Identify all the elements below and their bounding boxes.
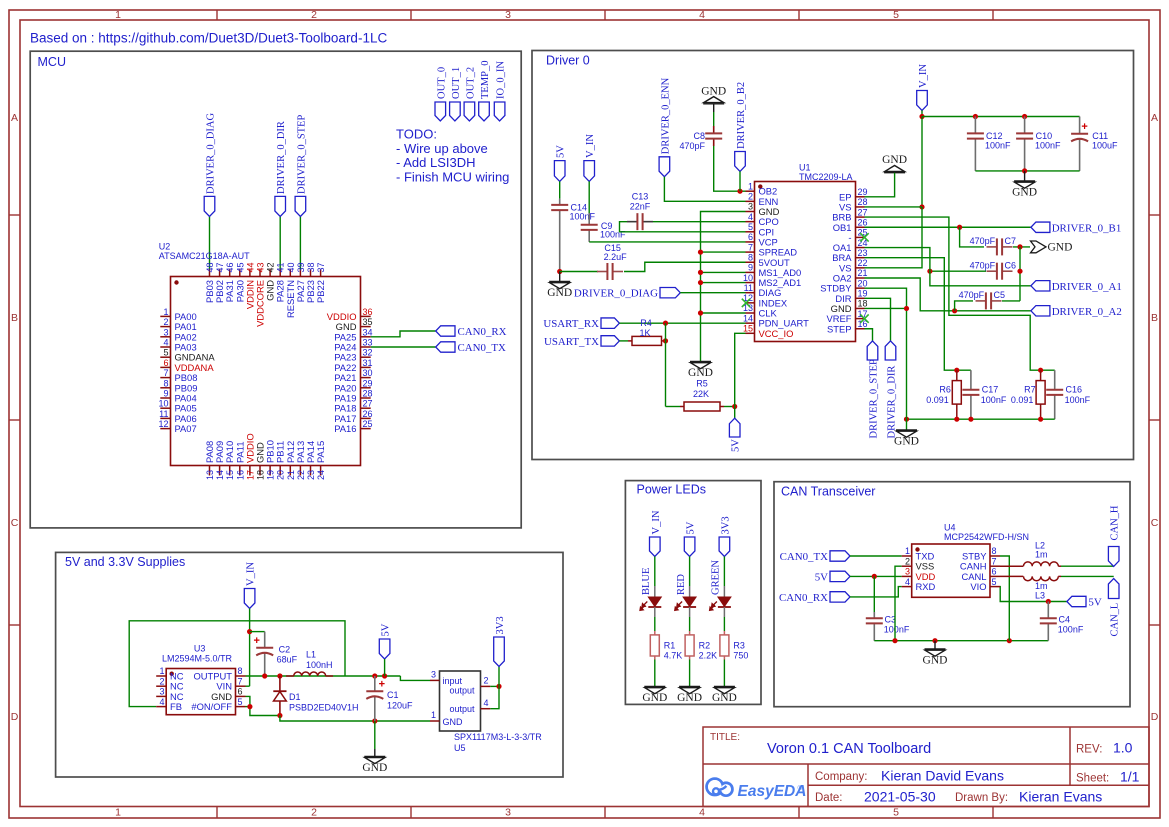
wire C5 to gnd vertical (1002, 300, 1020, 302)
net flag V_IN (driver left) (584, 161, 595, 182)
svg-text:27: 27 (363, 399, 373, 409)
svg-text:41: 41 (276, 262, 286, 272)
svg-text:11: 11 (744, 283, 753, 293)
capacitor C6 (987, 270, 997, 272)
wire V_IN to C9 (588, 181, 590, 213)
svg-text:48: 48 (205, 262, 215, 272)
svg-text:BLUE: BLUE (641, 568, 652, 595)
svg-text:2.2K: 2.2K (699, 651, 718, 661)
U5 pins (430, 670, 490, 722)
svg-text:VCC_IO: VCC_IO (759, 328, 794, 339)
wire STBY pin 8 to gnd rail (1000, 556, 1009, 641)
svg-text:29: 29 (858, 187, 868, 197)
svg-text:19: 19 (266, 470, 276, 480)
svg-text:1K: 1K (639, 328, 650, 338)
svg-text:38: 38 (306, 262, 316, 272)
svg-text:0.091: 0.091 (1011, 395, 1034, 405)
no-connect X pin 17 (860, 314, 868, 322)
svg-text:A: A (1151, 112, 1158, 124)
svg-text:Based on : https://github.com/: Based on : https://github.com/Duet3D/Due… (30, 31, 387, 46)
title block outline (703, 727, 1149, 807)
ground at C14/C15 (559, 272, 561, 282)
svg-text:Date:: Date: (815, 792, 843, 804)
ground below R3 (714, 686, 735, 688)
capacitor C14 (559, 199, 561, 205)
wire node to R5 (666, 406, 681, 408)
svg-text:5: 5 (163, 348, 168, 358)
wire C9 to VCP pin 6 (589, 241, 745, 243)
wire DRIVER_0_DIAG to U2 pin 48 (209, 217, 211, 270)
wire STDBY pin 20 to gnd (865, 288, 907, 430)
svg-text:22K: 22K (693, 389, 709, 399)
svg-text:DRIVER_0_ENN: DRIVER_0_ENN (660, 77, 671, 154)
svg-text:21: 21 (286, 470, 296, 480)
wire V_IN to C2 (250, 631, 265, 633)
wire CAN0_RX to RXD pin 4 (850, 587, 902, 597)
wire BRA pin 23 to R6/C17 (865, 258, 971, 371)
svg-text:+: + (1081, 121, 1087, 133)
net flag DRIVER_0_DIR (below U1) (885, 341, 896, 360)
wire 5V to LED RED (689, 557, 691, 587)
wire 3V3 to LED GREEN (723, 557, 725, 587)
svg-text:30: 30 (363, 368, 373, 378)
resistor R4 (628, 340, 632, 342)
svg-text:®: ® (798, 784, 803, 792)
svg-text:22nF: 22nF (630, 201, 651, 211)
wire OUTPUT rail (246, 675, 401, 677)
inductor L3 (1000, 575, 1023, 577)
svg-text:C10: C10 (1036, 131, 1053, 141)
svg-text:2: 2 (159, 676, 164, 686)
wire CPO pin 4 to C13 (653, 221, 746, 223)
svg-text:470pF: 470pF (970, 236, 996, 246)
svg-text:C11: C11 (1092, 131, 1108, 141)
svg-text:V_IN: V_IN (246, 562, 257, 586)
svg-text:CAN_H: CAN_H (1110, 505, 1121, 540)
wire C14 to GND junction (557, 269, 562, 274)
wire R2 to GND (689, 660, 691, 687)
svg-text:8: 8 (163, 378, 168, 388)
svg-text:TEMP_0: TEMP_0 (480, 60, 491, 99)
svg-text:0.091: 0.091 (926, 395, 949, 405)
svg-text:5V: 5V (1088, 597, 1101, 609)
capacitor C17 (970, 370, 972, 390)
wire 5V to VDD pin 3 (850, 575, 902, 577)
svg-text:Power LEDs: Power LEDs (637, 483, 706, 497)
net flag DRIVER_0_DIAG (204, 196, 215, 216)
svg-text:1: 1 (431, 710, 436, 720)
U4 pins (902, 546, 1000, 592)
5V and 3.3V Supplies block box (56, 552, 563, 777)
capacitor C9 (588, 213, 590, 225)
svg-text:GND: GND (677, 692, 702, 704)
svg-text:D: D (11, 711, 19, 723)
capacitor C10 (1024, 117, 1026, 134)
svg-text:Company:: Company: (815, 771, 867, 783)
net flag DRIVER_0_A2 (1031, 306, 1050, 316)
wire C7 to GND flag (1013, 246, 1030, 248)
svg-text:24: 24 (316, 470, 326, 480)
svg-text:U3: U3 (194, 644, 206, 654)
wire gnd rail supplies (277, 713, 282, 718)
svg-text:MCP2542WFD-H/SN: MCP2542WFD-H/SN (944, 532, 1029, 542)
Power LEDs block box (625, 481, 761, 705)
svg-text:20: 20 (276, 470, 286, 480)
svg-text:5: 5 (893, 807, 899, 819)
svg-text:45: 45 (235, 262, 245, 272)
svg-text:D: D (1151, 711, 1159, 723)
resistor R7 (1040, 370, 1042, 380)
resistor R5 (680, 406, 684, 408)
svg-text:PA15: PA15 (315, 441, 326, 463)
svg-text:1.0: 1.0 (1113, 740, 1133, 756)
svg-text:34: 34 (363, 327, 373, 337)
svg-text:A: A (11, 112, 18, 124)
svg-text:Voron 0.1 CAN Toolboard: Voron 0.1 CAN Toolboard (767, 741, 931, 757)
ground CAN block (934, 641, 936, 649)
svg-text:10: 10 (743, 273, 753, 283)
wire FB loop (129, 621, 345, 707)
svg-text:USART_TX: USART_TX (544, 336, 599, 348)
no-connect X pin 25 (860, 233, 868, 241)
wire R5 to 5V and VCC_IO (724, 406, 735, 408)
svg-text:31: 31 (363, 358, 373, 368)
svg-text:GND: GND (923, 655, 948, 667)
wire OA1 pin 24 to DRIVER_0_A1 (865, 248, 1031, 286)
svg-text:22: 22 (296, 470, 306, 480)
svg-text:TITLE:: TITLE: (710, 732, 740, 743)
svg-text:C1: C1 (387, 690, 399, 700)
svg-text:L1: L1 (306, 650, 316, 660)
svg-text:11: 11 (159, 409, 168, 419)
svg-text:17: 17 (245, 470, 255, 480)
svg-text:B: B (11, 312, 18, 324)
svg-text:13: 13 (205, 470, 215, 480)
svg-text:- Wire up above: - Wire up above (396, 141, 488, 156)
svg-text:GND: GND (688, 367, 713, 379)
net flag CAN0_RX (436, 326, 455, 336)
net flag DRIVER_0_DIR (275, 196, 286, 216)
frame row ticks and labels (9, 112, 1160, 723)
net flag V_IN (LED column) (650, 537, 661, 557)
wire jog to U5 input (400, 676, 430, 680)
svg-text:DRIVER_0_DIR: DRIVER_0_DIR (887, 366, 898, 439)
U1 right pins 29-16 (820, 187, 867, 334)
no-connect X pin 12 INDEX (742, 299, 750, 307)
svg-text:GND: GND (712, 692, 737, 704)
svg-text:1: 1 (115, 807, 121, 819)
svg-text:42: 42 (266, 262, 276, 272)
U2 left pins 1-12 (158, 307, 215, 434)
svg-text:40: 40 (286, 262, 296, 272)
svg-text:46: 46 (225, 262, 235, 272)
U2 right pins 36-25 (327, 307, 373, 434)
resistor R6 (956, 370, 958, 380)
svg-text:STEP: STEP (827, 323, 852, 334)
svg-text:4: 4 (905, 577, 910, 587)
svg-text:4: 4 (159, 697, 164, 707)
wire OA2 pin 21 to DRIVER_0_A2 (865, 278, 1031, 311)
svg-text:27: 27 (858, 207, 868, 217)
svg-text:3: 3 (905, 567, 910, 577)
U1 left pins 1-15 (743, 181, 809, 338)
svg-text:R4: R4 (640, 318, 652, 328)
svg-text:OUT_0: OUT_0 (436, 67, 447, 99)
svg-text:+: + (253, 635, 259, 647)
net flag DRIVER_0_ENN (659, 157, 670, 177)
svg-text:OUT_2: OUT_2 (465, 67, 476, 99)
svg-text:C13: C13 (632, 192, 649, 202)
capacitor C15 (560, 271, 598, 273)
wire BRB pin 27 to R7/C16 (865, 217, 1055, 370)
svg-text:39: 39 (296, 262, 306, 272)
wire DRIVER_0_ENN to ENN pin 2 (664, 177, 745, 202)
frame column ticks and labels (115, 9, 993, 819)
svg-text:1m: 1m (1035, 581, 1048, 591)
ground below R1 (644, 686, 665, 688)
svg-text:32: 32 (363, 348, 373, 358)
svg-text:12: 12 (158, 419, 168, 429)
svg-text:DRIVER_0_A1: DRIVER_0_A1 (1052, 281, 1122, 293)
svg-text:USART_RX: USART_RX (543, 318, 599, 330)
EasyEDA logo (707, 779, 807, 800)
svg-text:MCU: MCU (38, 55, 66, 69)
svg-text:C3: C3 (885, 615, 897, 625)
svg-text:C7: C7 (1005, 236, 1017, 246)
svg-text:OUT_1: OUT_1 (451, 67, 462, 99)
svg-text:RXD: RXD (916, 581, 936, 592)
net flag DRIVER_0_B1 (1031, 222, 1050, 232)
svg-text:37: 37 (316, 262, 326, 272)
svg-text:R3: R3 (733, 641, 745, 651)
svg-text:26: 26 (858, 217, 868, 227)
U3 pins (156, 666, 245, 712)
svg-text:120uF: 120uF (387, 701, 413, 711)
resistor R2 (689, 631, 691, 635)
U2 bottom pins 13-24 (204, 433, 326, 480)
svg-text:R2: R2 (699, 641, 711, 651)
svg-text:8: 8 (238, 666, 243, 676)
svg-text:EasyEDA: EasyEDA (738, 783, 807, 800)
capacitor C12 (974, 117, 976, 134)
svg-text:C: C (1151, 517, 1159, 529)
svg-text:7: 7 (163, 368, 168, 378)
ground at EP (884, 172, 905, 174)
svg-text:25: 25 (363, 419, 373, 429)
svg-text:L3: L3 (1035, 591, 1045, 601)
svg-text:5V: 5V (731, 439, 742, 452)
svg-text:VIO: VIO (970, 581, 986, 592)
net flags OUT_0 OUT_1 OUT_2 TEMP_0 IO_0_IN (435, 60, 507, 121)
svg-text:4: 4 (748, 212, 753, 222)
wire STEP pin 16 to flag (865, 329, 873, 341)
svg-text:100nF: 100nF (1065, 395, 1091, 405)
net flag 5V (supplies) (379, 639, 390, 659)
svg-text:output: output (450, 704, 476, 714)
wire sense gnd rail (907, 418, 1055, 420)
wire R4 to PDN node (663, 338, 668, 343)
net flag 5V (LED column) (684, 537, 695, 557)
capacitor C11 (1079, 117, 1081, 134)
svg-text:C8: C8 (693, 131, 705, 141)
net flag 5V (driver) (554, 161, 565, 182)
capacitor C5 (955, 301, 973, 311)
svg-text:1: 1 (748, 181, 753, 191)
svg-text:18: 18 (858, 299, 868, 309)
svg-text:GND: GND (894, 436, 919, 448)
wire V_IN down to VS pin 22 (865, 207, 923, 268)
TODO note (396, 127, 509, 185)
svg-text:470pF: 470pF (959, 290, 985, 300)
wire 5V to C14 (559, 181, 561, 198)
driver IC U1 body (755, 182, 856, 342)
svg-text:LM2594M-5.0/TR: LM2594M-5.0/TR (162, 654, 233, 664)
capacitor C8 (713, 126, 715, 133)
svg-text:U5: U5 (454, 743, 466, 753)
wire CAN0_TX to TXD pin 1 (850, 555, 902, 557)
svg-text:35: 35 (363, 317, 373, 327)
capacitor C1 (374, 676, 376, 691)
wire VIO pin 5 to 5V and C4 (1000, 587, 1067, 602)
wire 5V to C3 (873, 576, 875, 612)
svg-text:1: 1 (163, 307, 168, 317)
svg-text:Drawn By:: Drawn By: (955, 792, 1008, 804)
svg-text:4: 4 (163, 338, 168, 348)
svg-text:CAN_L: CAN_L (1110, 603, 1121, 637)
svg-text:3: 3 (159, 687, 164, 697)
svg-text:R5: R5 (696, 379, 708, 389)
net flag V_IN (supplies) (244, 589, 255, 609)
svg-text:B: B (1151, 312, 1158, 324)
diode D1 (279, 676, 281, 691)
svg-text:22: 22 (858, 258, 868, 268)
svg-text:3V3: 3V3 (720, 516, 731, 534)
svg-text:PA07: PA07 (175, 423, 197, 434)
resistor R3 (723, 631, 725, 635)
svg-text:36: 36 (363, 307, 373, 317)
net flag CAN_L (1108, 579, 1119, 599)
wire DRIVER_0_B2 down to OB2 net (739, 171, 741, 191)
svg-text:3V3: 3V3 (495, 616, 506, 634)
svg-text:18: 18 (256, 470, 266, 480)
svg-text:DRIVER_0_DIAG: DRIVER_0_DIAG (206, 113, 217, 194)
svg-text:GND: GND (362, 762, 387, 774)
svg-text:GND: GND (1048, 241, 1073, 253)
svg-text:3: 3 (163, 327, 168, 337)
resistor R1 (654, 631, 656, 635)
svg-text:R1: R1 (664, 641, 676, 651)
svg-text:REV:: REV: (1076, 744, 1102, 756)
svg-text:C16: C16 (1066, 384, 1083, 394)
svg-text:5V: 5V (556, 145, 567, 158)
svg-text:23: 23 (858, 248, 868, 258)
svg-text:16: 16 (235, 470, 245, 480)
svg-text:CAN0_TX: CAN0_TX (780, 551, 829, 563)
wire L3 to CAN_L (1061, 575, 1114, 577)
LED BLUE (648, 597, 661, 607)
net flag DRIVER_0_B2 (735, 152, 746, 172)
svg-text:C2: C2 (279, 645, 291, 655)
wire GND pin 6 and ON/OFF pin 5 (246, 696, 280, 715)
capacitor C3 (873, 612, 875, 618)
svg-text:PB22: PB22 (315, 280, 326, 303)
svg-text:43: 43 (256, 262, 266, 272)
svg-text:28: 28 (858, 197, 868, 207)
net flag DRIVER_0_STEP (below U1) (867, 341, 878, 360)
wire C8 to OB2 pin 1 (714, 146, 746, 191)
svg-text:14: 14 (743, 313, 753, 323)
svg-text:1/1: 1/1 (1120, 769, 1140, 785)
svg-text:TMC2209-LA: TMC2209-LA (799, 172, 853, 182)
wire V_IN down to VS pin 28 (921, 117, 923, 207)
svg-text:IO_0_IN: IO_0_IN (496, 61, 507, 99)
svg-text:750: 750 (733, 651, 748, 661)
capacitor C2 (264, 632, 266, 648)
svg-text:8: 8 (992, 546, 997, 556)
svg-text:26: 26 (363, 409, 373, 419)
svg-text:CAN0_TX: CAN0_TX (458, 342, 507, 354)
svg-text:DRIVER_0_A2: DRIVER_0_A2 (1052, 306, 1122, 318)
net flag V_IN (driver top) (917, 91, 928, 111)
svg-text:C17: C17 (982, 384, 999, 394)
ground below driver (896, 429, 917, 431)
svg-text:4.7K: 4.7K (664, 651, 683, 661)
wire DRIVER_0_DIR to U2 pin 41 (279, 217, 281, 270)
net flag DRIVER_0_A1 (1031, 281, 1050, 291)
svg-text:3: 3 (431, 670, 436, 680)
svg-text:5V and 3.3V Supplies: 5V and 3.3V Supplies (65, 555, 185, 569)
inductor L2 (1000, 565, 1023, 567)
svg-text:15: 15 (743, 324, 753, 334)
svg-text:R7: R7 (1024, 384, 1036, 394)
svg-text:RED: RED (676, 574, 687, 595)
svg-text:Kieran Evans: Kieran Evans (1019, 789, 1102, 805)
wire C13 to CPI pin 5 (620, 222, 746, 232)
svg-text:4: 4 (484, 698, 489, 708)
svg-text:100nF: 100nF (1035, 141, 1061, 151)
svg-text:5: 5 (992, 577, 997, 587)
svg-text:GND: GND (547, 287, 572, 299)
wire C6 to OA1 net (930, 270, 986, 272)
svg-text:PA16: PA16 (334, 423, 356, 434)
wire cap bottoms rail (975, 170, 1079, 172)
wire MS2_AD1 pin 10 to gnd bus (701, 282, 746, 284)
svg-text:DRIVER_0_STEP: DRIVER_0_STEP (296, 115, 307, 195)
wire C15 to 5VOUT pin 8 (624, 262, 746, 271)
capacitor C16 (1054, 370, 1056, 390)
wire 5V flag to output rail (384, 659, 386, 676)
net flag CAN0_TX (436, 342, 455, 352)
wire R3 to GND (723, 660, 725, 687)
wire EP pin 29 to gnd (865, 173, 895, 197)
ground above C8 (703, 103, 724, 105)
svg-text:5V: 5V (686, 521, 697, 534)
wire gnd vertical C7-C6-C5 (1019, 247, 1021, 301)
svg-text:GND: GND (1012, 187, 1037, 199)
svg-text:1m: 1m (1035, 550, 1048, 560)
svg-text:29: 29 (363, 378, 373, 388)
svg-text:21: 21 (858, 268, 868, 278)
svg-text:100nF: 100nF (1058, 625, 1084, 635)
wire LED GREEN to R3 (723, 607, 725, 617)
wire CAN0_RX from U2 pin 34 (371, 331, 436, 337)
svg-text:5: 5 (893, 9, 899, 21)
svg-text:ATSAMC21G18A-AUT: ATSAMC21G18A-AUT (159, 251, 250, 261)
wire GND bus left of U1 (701, 212, 746, 362)
svg-text:5V: 5V (815, 571, 828, 583)
wire U5 outputs to 3V3 (490, 685, 499, 687)
svg-text:23: 23 (306, 470, 316, 480)
